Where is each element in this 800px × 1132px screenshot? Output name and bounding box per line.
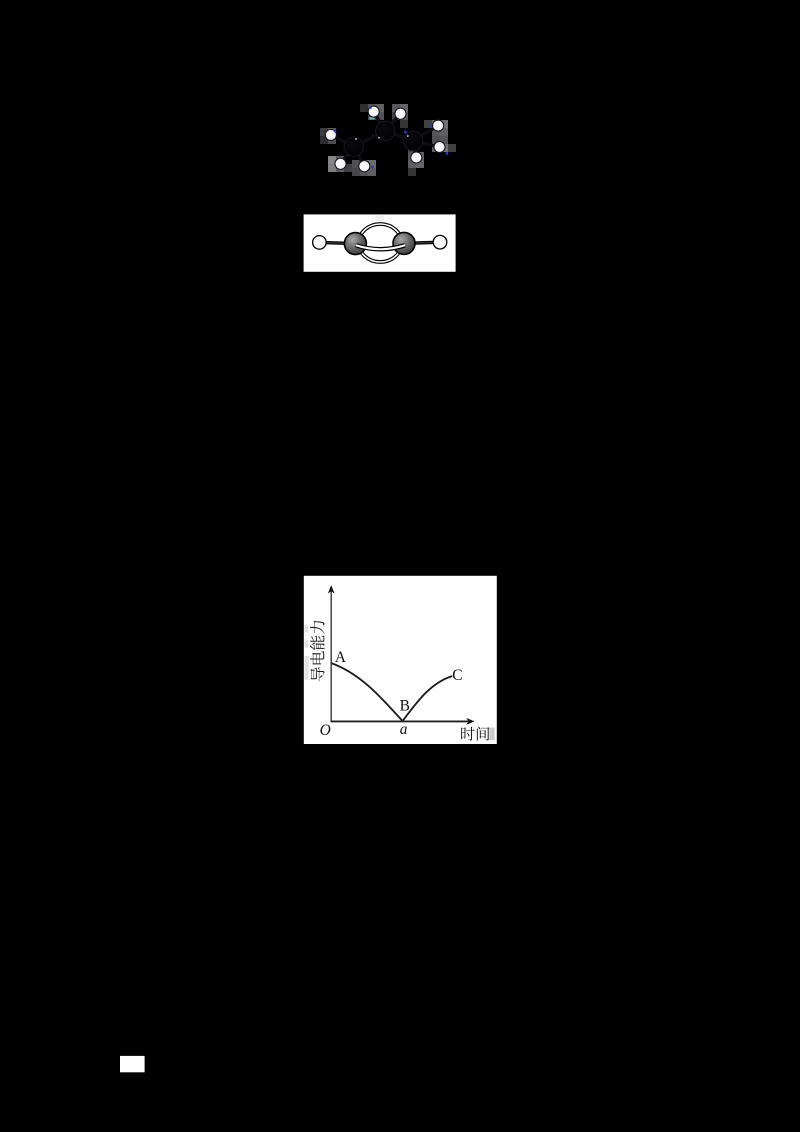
hydrogen atom H1: [368, 106, 379, 117]
carbon atom C2: [376, 121, 395, 140]
carbon atom (left) of acetylene: [344, 233, 366, 255]
hydrogen atom H2: [395, 108, 406, 119]
y axis with arrowhead: [328, 585, 335, 721]
carbon atom (right) of acetylene: [393, 232, 415, 254]
svg-text:B: B: [400, 697, 410, 714]
y-axis label (conductivity): [310, 621, 325, 682]
white highlight specks on carbons: [355, 135, 408, 140]
svg-text:O: O: [320, 722, 331, 739]
hydrogen atom H6: [335, 158, 346, 169]
hydrogen atom H3: [325, 129, 336, 140]
hydrogen atom H7: [359, 161, 370, 172]
hydrogen atom (right) of acetylene: [433, 235, 447, 249]
carbon atom C3: [404, 131, 423, 150]
svg-text:C: C: [452, 667, 462, 684]
H-C single bond (left): [319, 242, 355, 243]
svg-text:a: a: [400, 721, 408, 738]
x-axis label (time): [461, 726, 489, 740]
triple-bond ellipse (upper and lower bent bonds): [359, 224, 402, 262]
middle bent bond passing in front of carbons: [356, 245, 405, 249]
hydrogen atom H5: [434, 141, 445, 152]
hydrogen atom H8: [411, 152, 422, 163]
svg-text:A: A: [335, 649, 346, 666]
hydrogen atom H4: [433, 120, 444, 131]
bond sticks of propane model: [331, 112, 440, 167]
white card of acetylene figure: [304, 214, 456, 271]
hydrogen atom (left) of acetylene: [313, 236, 327, 250]
small white rectangle (page footer mark): [120, 1056, 145, 1072]
curve A to B (falling conductivity): [331, 663, 402, 721]
curve B to C (rising conductivity): [403, 676, 453, 721]
gray compression blocks around molecule: [320, 104, 456, 176]
white card of conductivity graph: [304, 576, 497, 744]
x axis with arrowhead: [331, 718, 475, 725]
carbon atom C1: [344, 137, 363, 156]
blue chroma-noise specks: [334, 106, 448, 168]
C-H single bond (right): [404, 242, 440, 243]
